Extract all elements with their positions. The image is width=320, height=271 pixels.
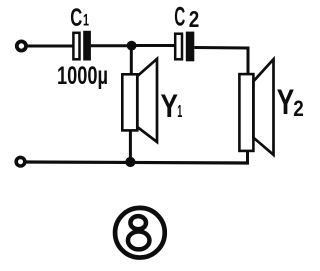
svg-text:C: C <box>174 2 185 32</box>
wire: bottom bus <box>26 162 250 163</box>
capacitor C1 (electrolytic: hollow + plate) <box>73 31 90 61</box>
label C2 <box>174 2 199 33</box>
node B junction dot <box>125 157 135 167</box>
capacitor C2 (electrolytic: hollow + plate) <box>175 32 194 62</box>
terminal: top-left input <box>17 41 26 50</box>
svg-text:1: 1 <box>83 10 89 29</box>
wire: C1 to node A <box>91 44 131 47</box>
speaker Y1 <box>122 59 157 142</box>
svg-text:2: 2 <box>293 96 304 121</box>
svg-text:1: 1 <box>177 101 182 121</box>
wire: node A down to Y1 <box>130 46 133 75</box>
label Y2 <box>277 83 304 122</box>
wire: Y2 down to bottom bus <box>246 151 249 164</box>
wire: top-left terminal to C1 <box>28 45 73 48</box>
node A junction dot <box>127 41 137 51</box>
wire: node A to C2 <box>131 44 175 47</box>
svg-text:Y: Y <box>161 88 179 124</box>
label C1 <box>70 4 89 32</box>
svg-text:1000µ: 1000µ <box>57 62 108 90</box>
label Y1 <box>161 88 183 124</box>
wire: Y1 to bottom node B <box>129 130 132 162</box>
wire: C2 to top-right corner and down to Y2 <box>194 48 248 76</box>
svg-text:C: C <box>70 4 82 32</box>
svg-text:Y: Y <box>277 83 295 122</box>
figure number 8 (circled) <box>115 208 165 258</box>
svg-text:2: 2 <box>189 6 200 32</box>
terminal: bottom-left input <box>16 157 25 166</box>
speaker Y2 <box>239 59 273 155</box>
